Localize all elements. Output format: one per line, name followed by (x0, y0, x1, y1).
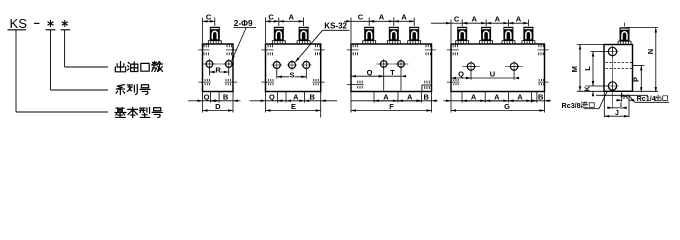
dimension R fig1 (209, 66, 228, 76)
svg-text:A: A (494, 92, 500, 101)
legend leader line to 出油口数 (65, 30, 108, 67)
dimension Q fig4 (451, 69, 514, 80)
lower mounting hole fig5 (607, 80, 619, 92)
block outline fig2 (266, 44, 321, 92)
block outline fig1 (203, 44, 234, 92)
inlet fittings fig4 (456, 27, 469, 44)
label KS-32 with leader fig2 (295, 22, 349, 62)
fitting centerline tick fig5 (624, 23, 626, 27)
dimension J fig5 (604, 91, 629, 117)
svg-text:K: K (585, 86, 592, 91)
mounting hole fig3 right (396, 59, 406, 69)
svg-text:A: A (288, 12, 294, 21)
block outline fig3 (351, 44, 432, 92)
bottom dimension row A A A B fig4 (444, 92, 552, 103)
inlet fitting fig5 (618, 27, 631, 44)
legend label 出油口数 (number of outlets) (115, 61, 162, 71)
svg-text:C: C (268, 12, 274, 21)
svg-text:A: A (401, 12, 407, 21)
bottom dimension row Q B fig1 (188, 92, 241, 103)
inlet fitting fig2 right (297, 27, 310, 44)
svg-text:T: T (390, 68, 395, 77)
dimension K fig5 (585, 81, 595, 96)
dimension H fig5 (616, 92, 634, 102)
centerline through holes fig3 (377, 63, 409, 65)
svg-text:Q: Q (367, 68, 373, 77)
svg-text:I: I (620, 102, 622, 109)
svg-text:C: C (454, 14, 460, 23)
outlet recess bottom right fig3 (422, 81, 432, 92)
dimension G fig4 (451, 92, 545, 113)
legend label 基本型号 (basic model) (115, 107, 162, 117)
mounting hole fig1 left (204, 59, 214, 69)
svg-text:M: M (570, 66, 579, 72)
svg-text:G: G (504, 102, 510, 111)
dimensions C A A fig3 (344, 12, 414, 43)
svg-text:C: C (358, 12, 364, 21)
svg-text:P: P (632, 77, 641, 82)
dimension E fig2 (266, 92, 321, 118)
dimension C fig1 (203, 12, 215, 43)
svg-text:S: S (289, 70, 294, 79)
mounting hole fig1 right (224, 59, 234, 69)
mounting hole fig2 left (272, 60, 283, 71)
svg-text:B: B (538, 92, 544, 101)
side ports at top corners fig3 (347, 45, 436, 56)
inlet fittings fig3 (363, 27, 376, 44)
side ports at top corners fig4 (447, 45, 549, 56)
svg-text:−: − (34, 18, 40, 30)
side ports at bottom corners fig4 (447, 79, 549, 85)
svg-text:R: R (215, 66, 221, 75)
legend leader line to 系列号 (51, 30, 109, 90)
svg-text:KS-32: KS-32 (324, 22, 347, 31)
svg-text:L: L (583, 66, 592, 71)
svg-text:A: A (407, 92, 413, 101)
svg-text:Q: Q (269, 92, 275, 101)
side ports at top corners fig1 (198, 45, 237, 56)
bottom side port left fig3 (347, 81, 364, 89)
svg-text:H: H (623, 94, 628, 101)
svg-text:A: A (293, 92, 299, 101)
mounting hole fig4 right (509, 61, 520, 72)
inlet fitting fig2 left (272, 27, 285, 44)
dimension F fig3 (351, 92, 432, 113)
svg-text:Rc3/8: Rc3/8 (562, 101, 581, 110)
svg-text:E: E (291, 102, 296, 111)
dimension T fig3 (379, 68, 406, 78)
mounting hole fig2 middle (287, 60, 298, 71)
dimension N fig5 (646, 28, 657, 93)
svg-text:A: A (517, 92, 523, 101)
bottom dimension row Q A B fig2 (250, 92, 338, 103)
hidden outlet passage dashed fig5 (606, 63, 633, 69)
dimension I fig5 (607, 101, 627, 109)
dimension Q fig3 (351, 66, 401, 91)
dimension P fig5 (632, 65, 643, 92)
dimension D fig1 (203, 92, 234, 113)
svg-text:A: A (495, 14, 501, 23)
svg-text:U: U (490, 70, 495, 79)
svg-text:A: A (379, 12, 385, 21)
label 2-Φ9 with leader fig1 (232, 18, 256, 61)
block outline fig4 (451, 44, 545, 92)
upper mounting hole fig5 (607, 46, 619, 58)
svg-text:B: B (309, 92, 315, 101)
dimension L fig5 (583, 52, 594, 87)
mounting hole fig2 right (301, 60, 312, 71)
dimension U fig4 (466, 70, 519, 80)
svg-text:Rc1/4: Rc1/4 (637, 94, 656, 103)
label Rc1/4 outlet with leader fig5 (628, 94, 669, 103)
legend label 系列号 (series number) (116, 84, 150, 94)
centerline through holes fig4 (462, 66, 523, 68)
svg-text:B: B (223, 92, 229, 101)
svg-text:A: A (383, 92, 389, 101)
svg-text:B: B (423, 92, 429, 101)
vertical centerline fig5 (612, 47, 614, 109)
mounting hole fig4 left (466, 61, 477, 72)
svg-text:2-Φ9: 2-Φ9 (234, 18, 253, 28)
svg-text:N: N (646, 49, 655, 54)
label Rc3/8 inlet with leader fig5 (562, 92, 607, 110)
svg-text:A: A (471, 92, 477, 101)
side ports at bottom corners fig2 (261, 79, 325, 85)
dimension M fig5 (570, 45, 581, 92)
svg-text:Q: Q (458, 70, 464, 79)
svg-text:J: J (615, 110, 619, 117)
dimensions C A A A fig4 (431, 14, 528, 43)
svg-text:D: D (215, 102, 221, 111)
legend leader line to 基本型号 (16, 30, 108, 112)
dimension S fig2 (277, 68, 307, 79)
extension lines fig5 (577, 28, 658, 96)
svg-text:F: F (389, 102, 394, 111)
svg-text:A: A (471, 14, 477, 23)
svg-text:KS: KS (10, 16, 28, 31)
side ports at top corners fig2 (261, 45, 325, 56)
svg-text:C: C (206, 12, 212, 21)
centerline through holes fig1 (204, 63, 233, 65)
mounting hole fig3 left (379, 59, 389, 69)
hidden bottom inlet dashed fig5 (610, 88, 616, 92)
inlet fitting fig1 (208, 27, 221, 44)
bottom dimension row A A B fig3 (351, 92, 438, 103)
dimensions C and A fig2 (266, 12, 304, 43)
svg-text:A: A (516, 14, 522, 23)
svg-text:Q: Q (204, 92, 210, 101)
block outline fig5 side view (604, 45, 633, 92)
legend model code KS-** (8, 16, 71, 31)
side ports at bottom corners fig1 (198, 79, 237, 85)
